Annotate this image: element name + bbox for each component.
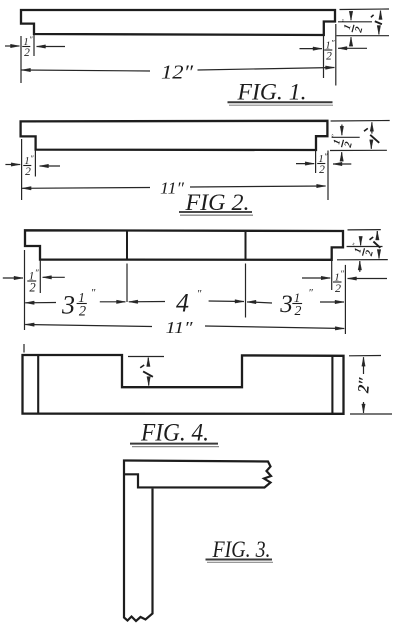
svg-text:″: ″ (308, 287, 313, 299)
svg-text:2″: 2″ (355, 375, 373, 394)
svg-text:2: 2 (335, 281, 341, 295)
svg-text:″: ″ (350, 241, 360, 247)
svg-text:″: ″ (331, 37, 335, 47)
svg-text:2: 2 (29, 281, 36, 295)
svg-text:2: 2 (343, 141, 355, 150)
svg-text:″: ″ (340, 269, 344, 279)
svg-text:″: ″ (91, 287, 96, 299)
svg-text:″: ″ (329, 133, 339, 139)
svg-text:2: 2 (24, 47, 30, 59)
svg-text:FIG. 1.: FIG. 1. (236, 80, 306, 105)
svg-text:″: ″ (324, 151, 328, 161)
svg-text:″: ″ (35, 269, 40, 279)
svg-text:2: 2 (364, 249, 376, 258)
svg-text:11″: 11″ (166, 318, 194, 337)
svg-text:″: ″ (30, 153, 34, 163)
svg-text:2: 2 (79, 304, 86, 320)
svg-text:2: 2 (319, 164, 325, 176)
svg-text:″: ″ (340, 18, 350, 24)
svg-text:4: 4 (176, 289, 189, 318)
svg-text:″: ″ (197, 288, 202, 300)
svg-text:11″: 11″ (160, 179, 185, 198)
svg-text:FIG. 4.: FIG. 4. (140, 418, 209, 447)
svg-text:2: 2 (353, 26, 365, 35)
svg-text:12″: 12″ (161, 62, 194, 84)
svg-text:2: 2 (295, 303, 302, 318)
svg-text:2: 2 (25, 166, 31, 178)
svg-text:2: 2 (326, 51, 332, 63)
svg-text:″: ″ (29, 34, 33, 44)
svg-text:3: 3 (279, 291, 293, 318)
svg-text:3: 3 (61, 291, 75, 320)
